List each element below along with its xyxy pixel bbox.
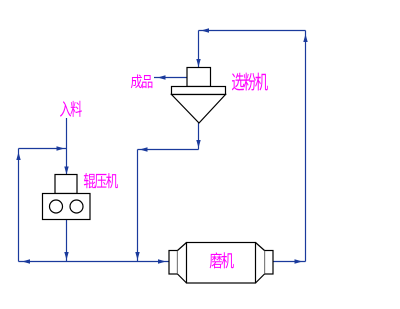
wire: roller press discharge — [66, 220, 68, 262]
roller press (辊压机) body — [43, 175, 91, 220]
label: 入料 (feed) — [60, 101, 82, 117]
label: 辊压机 (roller press) — [84, 173, 118, 188]
wire: mill outlet — [273, 261, 306, 263]
arrowhead: riser up — [303, 34, 307, 42]
label: 成品 (product) — [131, 74, 153, 88]
arrowhead: underflow joins bottom line — [135, 252, 139, 260]
wire: feed line down into roller press — [66, 118, 68, 175]
arrowhead: product out — [158, 75, 166, 79]
wire: top return line — [199, 30, 306, 32]
wire: recirculation horizontal to feed junction — [19, 148, 67, 150]
arrowhead: recirculation up — [16, 152, 20, 160]
arrowhead: mill outlet right — [295, 259, 303, 263]
wire: left recirculation riser — [18, 149, 20, 262]
arrowhead: press discharge joins bottom line — [64, 252, 68, 260]
wire: classifier underflow drop to bottom line — [137, 150, 139, 262]
wire: bottom collector line to mill — [19, 261, 170, 263]
wire: right riser to top — [305, 31, 307, 262]
arrowhead: into classifier — [196, 59, 200, 67]
arrowhead: bottom line into mill — [158, 259, 166, 263]
arrowhead: underflow down — [196, 140, 200, 148]
label: 选粉机 (classifier) — [232, 73, 268, 91]
arrowhead: feed into roller press — [64, 167, 68, 175]
arrowhead: to recirculation corner — [22, 259, 30, 263]
arrowhead: underflow left — [140, 147, 148, 151]
wire: classifier coarse underflow down — [198, 123, 200, 150]
label: 磨机 (mill) — [210, 252, 234, 268]
classifier (选粉机) body — [172, 68, 226, 124]
arrowhead: top line left — [201, 28, 209, 32]
wire: drop into classifier — [198, 31, 200, 68]
wire: product line out of classifier — [154, 77, 187, 79]
wire: classifier underflow horizontal — [138, 149, 199, 151]
ball mill (磨机) body — [169, 243, 273, 284]
arrowhead: recirculation joins feed — [57, 146, 65, 150]
